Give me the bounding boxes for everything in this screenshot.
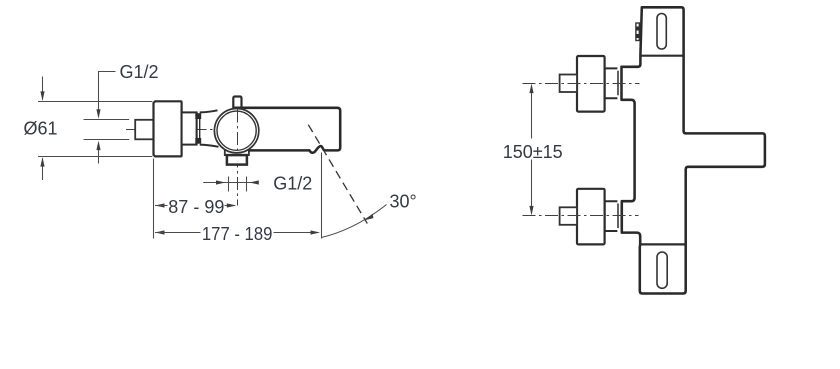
arrowhead Ø61 up (40, 157, 44, 167)
dimension line 177-189 right segment (274, 232, 319, 234)
top bracket slot (657, 14, 666, 50)
bottom union stub (560, 207, 577, 225)
dimension 150 upper segment (531, 85, 533, 138)
angle arc 30deg (321, 205, 386, 238)
thermostat knob inner circle (217, 111, 256, 150)
thermostat knob outer circle (214, 109, 258, 153)
dimension ext line Ø61 bottom (38, 156, 152, 158)
shower outlet stub (227, 155, 247, 165)
top union ring right (620, 71, 622, 96)
diverter tab on top (233, 97, 241, 109)
top union ring left (617, 71, 619, 96)
dimension ext line spout tip (321, 153, 323, 239)
joint ring tab top (195, 113, 201, 119)
centerline bottom union (523, 215, 639, 217)
arrowhead 150 up (529, 84, 533, 94)
arrowhead G1/2 outlet right-pointing (216, 180, 226, 184)
arrowhead 30deg on arc (364, 214, 375, 223)
body neck (182, 112, 197, 144)
svg-text:Ø61: Ø61 (23, 118, 57, 138)
top union block (577, 56, 605, 112)
svg-text:G1/2: G1/2 (120, 62, 159, 82)
dimension Ø61 lower tail (42, 158, 44, 180)
arrowhead G1/2 down (96, 109, 100, 119)
arrowhead 177-189 left (155, 230, 165, 234)
svg-text:G1/2: G1/2 (273, 174, 312, 194)
dimension line 177-189 left segment (155, 232, 201, 234)
svg-text:150±15: 150±15 (503, 142, 563, 162)
dimension line 87-99 left tail (155, 205, 168, 207)
svg-text:177 - 189: 177 - 189 (202, 224, 273, 244)
dimension G1/2 lower tail (98, 143, 100, 163)
centerline horizontal (126, 129, 260, 131)
body silhouette (622, 7, 765, 293)
seam line above bottom bracket (640, 243, 686, 245)
joint ring line left (196, 114, 198, 143)
bottom union neck (605, 201, 618, 231)
top union stub (560, 75, 577, 93)
joint ring line right (199, 114, 201, 143)
outlet collar under knob (225, 149, 249, 155)
spout body (234, 108, 340, 153)
leader G1/2 inlet (99, 72, 116, 117)
dimension ext line G1/2 top (84, 119, 130, 121)
dimension ext line Ø61 top (38, 101, 152, 103)
seam line under top bracket (640, 55, 683, 57)
dimension ext line wall plane (153, 159, 155, 239)
svg-text:87 - 99: 87 - 99 (168, 197, 224, 217)
bottom union block (577, 189, 605, 245)
centerline vertical (237, 110, 239, 206)
bottom union ring left (617, 204, 619, 229)
arrowhead G1/2 up (96, 141, 100, 151)
bottom bracket slot (657, 252, 667, 288)
centerline top union (523, 83, 640, 85)
dimension ext tick G1/2 outlet left (228, 177, 230, 192)
body tube (200, 110, 219, 147)
dimension Ø61 upper tail (42, 77, 44, 100)
clip tab marks (636, 27, 639, 31)
dimension ext tick G1/2 outlet right (246, 177, 248, 192)
svg-text:30°: 30° (390, 192, 417, 212)
bottom union ring right (620, 204, 622, 229)
dimension line 87-99 left arrow (155, 203, 165, 207)
arrowhead 177-189 right (311, 230, 321, 234)
dimension 150 lower segment (531, 160, 533, 214)
arrowhead 87-99 right (227, 203, 237, 207)
arrowhead G1/2 outlet left-pointing (249, 180, 258, 184)
arrowhead Ø61 down (40, 91, 44, 101)
dimension ext line G1/2 bottom (84, 139, 130, 141)
spout swivel dashed line 30deg (308, 125, 367, 224)
clip tab on top bracket (636, 23, 639, 41)
wall pipe stub (135, 120, 153, 140)
dimension line 87-99 right tail (225, 205, 235, 207)
dimension line G1/2 outlet (203, 182, 257, 184)
top union neck (605, 68, 618, 98)
wall flange (154, 101, 182, 156)
joint ring tab bottom (195, 138, 201, 144)
arrowhead 150 down (529, 206, 533, 216)
